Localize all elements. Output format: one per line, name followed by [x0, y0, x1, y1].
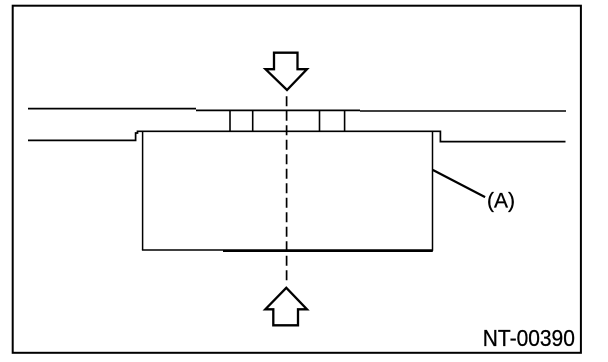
clip tick 4	[344, 110, 346, 132]
panel top surface line middle segment	[196, 109, 360, 111]
box A right edge	[432, 132, 434, 251]
clip tick 2	[252, 110, 254, 132]
clip tick 1	[229, 110, 231, 132]
svg-text:(A): (A)	[487, 189, 515, 212]
panel underside line with steps (left flange, raised centre, right flange)	[28, 131, 566, 141]
box A left edge	[142, 132, 144, 251]
box A bottom edge	[142, 249, 433, 251]
box A bottom edge thicker right part	[223, 250, 433, 252]
svg-text:NT-00390: NT-00390	[483, 325, 575, 351]
leader line to label A	[433, 170, 485, 197]
dashed centreline	[286, 96, 288, 283]
panel top surface line left segment	[28, 108, 196, 110]
up arrow (bottom)	[265, 288, 307, 326]
clip tick 3	[319, 110, 321, 132]
down arrow (top)	[266, 53, 308, 90]
panel top surface line right segment	[360, 110, 566, 112]
